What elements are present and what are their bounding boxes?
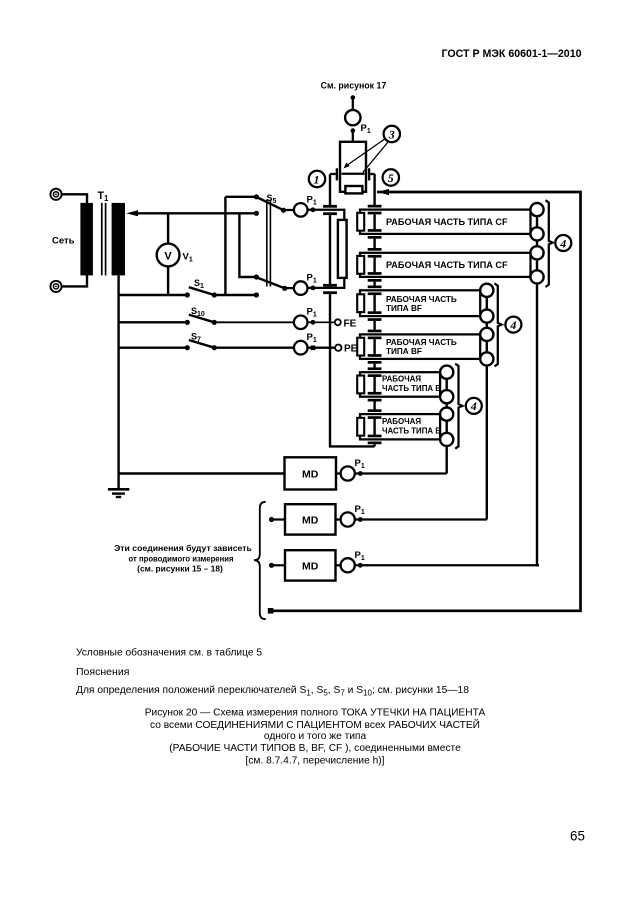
- figure caption: [145, 708, 486, 767]
- meter P1 row1: [284, 195, 345, 220]
- switch S7: [119, 332, 294, 351]
- left rail (from transformer bottom to ground): [117, 275, 119, 490]
- mains terminal bottom: [50, 281, 61, 292]
- svg-text:См. рисунок 17: См. рисунок 17: [321, 81, 387, 91]
- svg-text:5: 5: [388, 171, 394, 185]
- svg-text:от проводимого измерения: от проводимого измерения: [129, 554, 234, 564]
- wire B chain down to MD1 row: [446, 446, 448, 474]
- callout circle 5: [383, 169, 399, 185]
- svg-text:ГОСТ Р МЭК 60601-1—2010: ГОСТ Р МЭК 60601-1—2010: [442, 48, 582, 60]
- S5 blade lower: [258, 278, 285, 289]
- measuring device MD2: [269, 504, 336, 534]
- svg-text:Для определения положений пере: Для определения положений переключателей…: [76, 685, 469, 697]
- svg-text:со всеми СОЕДИНЕНИЯМИ С ПАЦИЕ: со всеми СОЕДИНЕНИЯМИ С ПАЦИЕНТОМ всех Р…: [150, 718, 480, 731]
- svg-text:PE: PE: [344, 344, 358, 355]
- brace CF group: [546, 200, 553, 287]
- mains terminal top: [50, 189, 61, 200]
- patient lead bundle rect CF1: [357, 213, 364, 231]
- meter P1 PE row: [294, 332, 335, 355]
- patient lead bundle rect B2: [357, 418, 364, 436]
- arrow on enclosure wire: [377, 189, 389, 195]
- leader line from 3 (to inlet): [363, 142, 388, 173]
- patient connection circles CF: [530, 203, 543, 284]
- measuring device MD1: [285, 457, 337, 489]
- svg-text:65: 65: [570, 829, 585, 844]
- S5 left rail: [224, 197, 226, 295]
- callout circle 4 (BF): [505, 317, 521, 333]
- svg-text:Условные обозначения см. в таб: Условные обозначения см. в таблице 5: [76, 647, 262, 659]
- ground: [108, 489, 129, 497]
- svg-text:4: 4: [509, 318, 516, 332]
- enclosure loop wire (right/bottom): [272, 192, 581, 611]
- svg-text:P1: P1: [307, 332, 317, 344]
- svg-text:РАБОЧАЯ ЧАСТЬ ТИПА CF: РАБОЧАЯ ЧАСТЬ ТИПА CF: [386, 217, 508, 227]
- wire: [62, 275, 87, 286]
- left vertical rail x=330 with capacitors: [323, 174, 375, 446]
- S5 link: [266, 200, 268, 287]
- meter P1 top: [345, 110, 371, 135]
- svg-text:Рисунок 20 — Схема измерения: Рисунок 20 — Схема измерения полного ТОК…: [145, 708, 486, 719]
- wire: [352, 131, 354, 143]
- leader line from 3 (to contacts): [344, 139, 386, 169]
- patient lead bundle rect B1: [357, 376, 364, 394]
- meter P1 FE row: [294, 307, 335, 330]
- S5 inner rail: [239, 213, 256, 277]
- svg-text:РАБОЧАЯ: РАБОЧАЯ: [382, 375, 421, 384]
- svg-text:ТИПА BF: ТИПА BF: [386, 347, 422, 356]
- S5 blade upper: [258, 198, 284, 211]
- callout circle 4 (CF): [555, 235, 571, 251]
- applied part box B2: [360, 414, 441, 439]
- svg-text:P1: P1: [307, 273, 317, 285]
- wire BF chain down to MD2 row: [486, 366, 488, 520]
- meter P1 MD1: [336, 458, 365, 481]
- bushing bar left: [336, 168, 338, 180]
- svg-text:РАБОЧАЯ: РАБОЧАЯ: [382, 417, 421, 426]
- svg-text:FE: FE: [344, 318, 357, 329]
- applied part box BF2: [360, 334, 480, 359]
- svg-text:Сеть: Сеть: [52, 236, 75, 247]
- brace B group: [455, 364, 462, 449]
- cord grip rect: [345, 186, 362, 193]
- wire MD2 to type BF chain: [355, 518, 487, 520]
- secondary top wire with arrow: [126, 210, 256, 216]
- svg-text:V: V: [164, 250, 172, 262]
- applied part box BF1: [360, 290, 480, 316]
- svg-text:РАБОЧАЯ ЧАСТЬ: РАБОЧАЯ ЧАСТЬ: [386, 338, 457, 347]
- svg-text:P1: P1: [355, 458, 365, 470]
- svg-text:P1: P1: [355, 550, 365, 562]
- svg-text:1: 1: [314, 173, 320, 187]
- wire MD1 to type B chain: [355, 472, 447, 474]
- switch S1: [119, 278, 257, 298]
- applied part box CF2: [360, 253, 531, 277]
- svg-text:P1: P1: [307, 307, 317, 319]
- patient connection circles BF: [480, 284, 493, 366]
- svg-text:Эти соединения будут зависеть: Эти соединения будут зависеть: [114, 543, 252, 553]
- terminal PE: [335, 344, 358, 355]
- svg-text:4: 4: [470, 399, 477, 413]
- switch S5 assembly: [225, 193, 287, 298]
- svg-text:P1: P1: [307, 195, 317, 207]
- wire stub left: [330, 173, 336, 175]
- svg-text:MD: MD: [302, 468, 319, 480]
- svg-text:ТИПА BF: ТИПА BF: [386, 304, 422, 313]
- wire: [62, 194, 87, 203]
- svg-text:ЧАСТЬ ТИПА В: ЧАСТЬ ТИПА В: [382, 384, 441, 393]
- S5 contacts: [254, 194, 259, 199]
- bushing bar right: [368, 168, 370, 180]
- svg-text:3: 3: [388, 128, 395, 142]
- right vertical rail with capacitor chain: [368, 174, 382, 446]
- patient lead bundle rect BF1: [357, 294, 364, 312]
- brace BF group: [495, 283, 502, 366]
- resistor: [338, 220, 347, 278]
- svg-text:T1: T1: [98, 190, 109, 203]
- svg-text:ЧАСТЬ ТИПА В: ЧАСТЬ ТИПА В: [382, 427, 441, 436]
- meter P1 row2: [285, 273, 345, 295]
- svg-text:РАБОЧАЯ ЧАСТЬ ТИПА CF: РАБОЧАЯ ЧАСТЬ ТИПА CF: [386, 260, 508, 270]
- wire stub right: [370, 173, 374, 175]
- square dot bottom-left of loop: [268, 608, 274, 614]
- wire: [352, 98, 354, 111]
- left curly brace: [254, 502, 266, 619]
- switch S10: [119, 306, 294, 325]
- terminal FE: [335, 318, 357, 329]
- svg-text:P1: P1: [361, 123, 371, 135]
- svg-text:[см. 8.7.4.7, перечисление h)]: [см. 8.7.4.7, перечисление h)]: [246, 756, 385, 767]
- measuring device MD3: [269, 550, 336, 580]
- svg-text:одного и того же типа: одного и того же типа: [264, 731, 367, 742]
- node dot below top meter P1: [351, 128, 356, 133]
- callout circle 3: [384, 126, 400, 142]
- voltmeter V1: [157, 213, 193, 295]
- transformer T1: [80, 190, 125, 275]
- patient lead bundle rect BF2: [357, 338, 364, 356]
- MD1 wire from rail: [119, 472, 285, 474]
- svg-text:MD: MD: [302, 560, 319, 572]
- applied part box B1: [360, 372, 441, 397]
- callout circle 1: [309, 171, 325, 187]
- wire MD3 to type CF chain: [355, 564, 538, 566]
- patient connection circles B: [440, 366, 453, 446]
- svg-text:(РАБОЧИЕ ЧАСТИ ТИПОВ В, BF, CF: (РАБОЧИЕ ЧАСТИ ТИПОВ В, BF, CF ), соедин…: [169, 743, 461, 754]
- meter P1 MD3: [336, 550, 365, 572]
- callout circle 4 (B): [466, 398, 482, 414]
- wire CF chain down to MD3 row: [537, 284, 539, 566]
- svg-text:V1: V1: [183, 252, 193, 264]
- svg-text:(см. рисунки 15 – 18): (см. рисунки 15 – 18): [137, 564, 223, 574]
- meter P1 MD2: [336, 504, 365, 527]
- svg-text:Пояснения: Пояснения: [76, 666, 129, 678]
- patient lead bundle rect CF2: [357, 256, 364, 274]
- svg-text:P1: P1: [355, 504, 365, 516]
- note text (these connections depend on measurement): [114, 543, 252, 574]
- applied part box CF1: [360, 210, 531, 234]
- node dot above top meter P1: [351, 95, 356, 100]
- appliance inlet box: [340, 142, 366, 192]
- svg-text:РАБОЧАЯ ЧАСТЬ: РАБОЧАЯ ЧАСТЬ: [386, 295, 457, 304]
- svg-text:4: 4: [559, 236, 566, 250]
- svg-text:MD: MD: [302, 514, 319, 526]
- internal contact line: [342, 173, 365, 175]
